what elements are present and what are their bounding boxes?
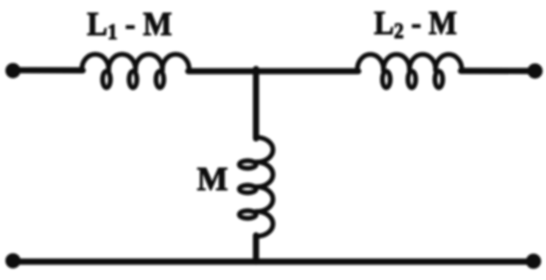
inductor M hump arc 3 — [256, 187, 273, 212]
inductor L2-M hump arc 4 — [436, 54, 462, 70]
inductor L2-M hump arc 3 — [410, 54, 436, 70]
inductor M hump arc 2 — [256, 162, 273, 187]
inductor L1-M loop 2 — [129, 71, 137, 88]
inductor L2-M loop 1 — [382, 71, 390, 88]
terminal dot bottom-right — [526, 254, 541, 269]
inductor L2-M loop 2 — [408, 71, 416, 88]
svg-text:L2 - M: L2 - M — [374, 5, 457, 43]
wire vertical upper (T-junction to M coil) — [253, 69, 259, 138]
inductor L1-M hump arc 4 — [162, 54, 189, 70]
wire bottom — [13, 259, 534, 265]
inductor L1-M hump arc 2 — [109, 54, 136, 70]
inductor L2-M loop 3 — [435, 71, 443, 88]
wire top-right segment — [461, 68, 535, 74]
inductor M hump arc 4 — [256, 211, 273, 236]
terminal dot bottom-left — [5, 253, 20, 268]
inductor L2-M hump arc 1 — [357, 54, 383, 70]
inductor L2-M hump arc 2 — [383, 54, 409, 70]
inductor L1-M loop 3 — [156, 71, 164, 88]
inductor L1-M hump arc 1 — [82, 54, 109, 70]
svg-text:M: M — [197, 161, 228, 198]
inductor L1-M loop 1 — [103, 71, 111, 88]
terminal dot top-left — [5, 63, 20, 78]
wire top-middle segment — [188, 68, 358, 74]
terminal dot top-right — [527, 63, 542, 78]
wire top-left segment — [13, 67, 83, 73]
svg-text:L1 - M: L1 - M — [87, 6, 172, 44]
inductor M hump arc 1 — [256, 137, 273, 162]
wire vertical lower (M coil to bottom wire) — [253, 235, 259, 261]
inductor M loop 2 — [239, 185, 256, 193]
inductor M loop 3 — [239, 211, 256, 219]
inductor M loop 1 — [239, 161, 256, 169]
inductor L1-M hump arc 3 — [135, 54, 162, 70]
